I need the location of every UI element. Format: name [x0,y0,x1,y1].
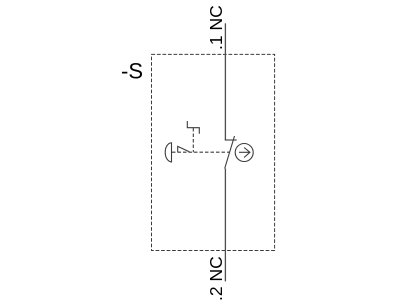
svg-text:.2 NC: .2 NC [206,256,226,300]
svg-text:.1 NC: .1 NC [206,5,226,50]
svg-text:-S: -S [121,59,143,84]
